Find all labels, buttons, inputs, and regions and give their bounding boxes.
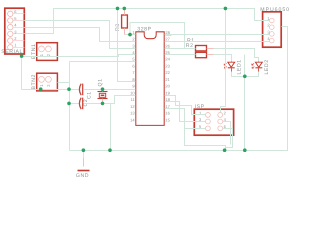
wire IC pin27 to MPU pin4 (SDA) — [165, 41, 270, 43]
svg-text:26: 26 — [165, 43, 170, 48]
svg-text:27: 27 — [165, 37, 170, 42]
LED2 — [252, 59, 270, 74]
pin numbers IC left 1-14 — [130, 30, 135, 123]
svg-text:22: 22 — [165, 70, 170, 75]
capacitor C2 — [79, 98, 89, 110]
svg-text:5: 5 — [14, 16, 17, 21]
junction IC pin1 — [128, 33, 132, 37]
crystal Q1 — [97, 78, 107, 103]
junction LED cathodes — [243, 75, 247, 79]
svg-text:16: 16 — [165, 111, 170, 116]
svg-text:10: 10 — [130, 90, 135, 95]
wire VCC drop to ISP pin2 — [221, 9, 226, 113]
svg-text:9: 9 — [132, 84, 135, 89]
junction gnd rail LED — [243, 148, 247, 152]
svg-text:4: 4 — [14, 23, 17, 28]
svg-text:19: 19 — [165, 90, 170, 95]
junction gnd rail GND symbol — [82, 148, 86, 152]
wire to IC pin5 — [70, 61, 136, 63]
wire BTN2 pin2 to gnd vertical — [58, 82, 70, 84]
svg-text:23: 23 — [165, 64, 170, 69]
button BTN2 — [31, 73, 57, 91]
wire RESET from IC pin1 junction up over IC — [130, 23, 185, 49]
wire serial pin5 to IC pin3 — [25, 21, 136, 49]
wire LED cathode net vertical — [244, 55, 246, 151]
junction vcc rail R3 — [123, 7, 127, 11]
junction crystal bottom — [101, 102, 105, 106]
resistor R2 — [186, 43, 215, 58]
wire net VCC top rail — [25, 9, 270, 34]
resistor R1 — [187, 38, 215, 51]
svg-text:2: 2 — [132, 37, 135, 42]
junction vcc rail A — [116, 7, 120, 11]
svg-text:11: 11 — [130, 97, 135, 102]
resistor R3 — [115, 15, 128, 31]
ground symbol GND — [76, 151, 90, 180]
pin numbers SERIAL 6..1 — [14, 9, 17, 48]
connector SERIAL — [1, 8, 24, 55]
wire IC pin25 to R2 — [165, 54, 196, 56]
wire C2 row to crystal bottom and jog to IC pin10 — [70, 103, 79, 105]
svg-text:3: 3 — [132, 43, 135, 48]
wire R3 bottom to IC pin1 — [125, 34, 136, 36]
svg-text:2: 2 — [267, 23, 270, 28]
button BTN1 — [31, 43, 57, 61]
svg-text:SERIAL: SERIAL — [1, 49, 23, 55]
junction BTN2 pin1 — [39, 87, 43, 91]
svg-text:24: 24 — [165, 57, 170, 62]
pin numbers IC right 28-15 — [165, 30, 170, 123]
svg-text:12: 12 — [130, 104, 135, 109]
svg-text:6: 6 — [132, 64, 135, 69]
LED1 arrows — [224, 63, 227, 68]
wire R3 top to rail — [124, 9, 126, 16]
pin numbers MPU6050 — [267, 16, 270, 41]
svg-text:LED1: LED1 — [236, 59, 242, 74]
wire IC pin18 to ISP pin3 — [165, 102, 206, 122]
pin numbers ISP — [199, 110, 227, 129]
svg-text:LED2: LED2 — [264, 59, 270, 74]
junction gnd/C1 — [67, 87, 71, 91]
IC U1 328P body — [130, 27, 170, 126]
wire gnd rail to C1 and crystal top to IC pin9 — [22, 89, 79, 91]
svg-text:14: 14 — [130, 117, 135, 122]
svg-text:MPU6050: MPU6050 — [260, 7, 290, 13]
connector ISP — [194, 104, 233, 135]
wire gnd left vertical — [69, 62, 71, 151]
svg-text:Q1: Q1 — [97, 78, 103, 86]
svg-text:2: 2 — [46, 53, 51, 56]
svg-text:C1: C1 — [86, 91, 92, 99]
junction serial gnd — [20, 54, 24, 58]
svg-text:1: 1 — [14, 43, 17, 48]
LED2 arrows — [252, 63, 255, 68]
junction vcc rail ISP — [224, 7, 228, 11]
svg-text:13: 13 — [130, 111, 135, 116]
svg-text:3: 3 — [267, 29, 270, 34]
junction gnd rail ISP — [223, 148, 227, 152]
svg-text:2: 2 — [224, 110, 227, 115]
wire R2 to LED1 anode — [214, 55, 232, 62]
svg-text:5: 5 — [132, 57, 135, 62]
svg-text:328P: 328P — [137, 27, 151, 33]
svg-text:GND: GND — [76, 173, 89, 179]
svg-text:15: 15 — [165, 117, 170, 122]
svg-text:21: 21 — [165, 77, 170, 82]
svg-text:1: 1 — [39, 53, 44, 56]
wire LED2 cathode to junction — [245, 72, 259, 77]
pin numbers BTN1 — [39, 53, 51, 56]
wire serial pin4 to IC pin2 — [25, 28, 136, 42]
pin label smudge near IC pin 28 — [165, 34, 171, 36]
junction gnd rail crystal — [108, 148, 112, 152]
wire IC pin17 to ISP pin5 and gnd rail — [165, 109, 226, 151]
wire crystal net down to gnd rail — [110, 104, 112, 151]
wire ISP pin4 jog down — [223, 122, 231, 145]
wire ISP pin6 jog to gnd rail — [223, 129, 233, 148]
svg-text:7: 7 — [132, 70, 135, 75]
svg-text:20: 20 — [165, 84, 170, 89]
svg-text:ISP: ISP — [195, 104, 205, 110]
svg-text:C2: C2 — [83, 99, 89, 107]
wire R1 to LED2 anode — [214, 49, 259, 62]
wire vcc drop to IC pin8 — [118, 9, 136, 82]
wire serial gnd vertical — [21, 57, 23, 90]
wire IC pin28 to MPU pin3 (SCL) — [165, 34, 270, 36]
connector MPU6050 — [260, 7, 290, 47]
LED1 — [224, 59, 242, 74]
junction gnd/C2 — [67, 102, 71, 106]
wire to IC pin4 through BTN1 — [22, 55, 136, 57]
svg-text:4: 4 — [267, 36, 270, 41]
svg-text:2: 2 — [46, 84, 51, 87]
wire gnd bottom rail — [70, 27, 288, 151]
pin numbers BTN2 — [39, 84, 51, 87]
junction crystal top — [101, 87, 105, 91]
capacitor C1 — [79, 84, 92, 99]
wire IC pin26 to R1 — [165, 48, 196, 50]
svg-text:BTN2: BTN2 — [31, 74, 37, 89]
wire LED1 cathode to junction — [232, 72, 245, 77]
wire IC pin19 to ISP pin1 — [165, 96, 206, 115]
svg-text:1: 1 — [39, 84, 44, 87]
